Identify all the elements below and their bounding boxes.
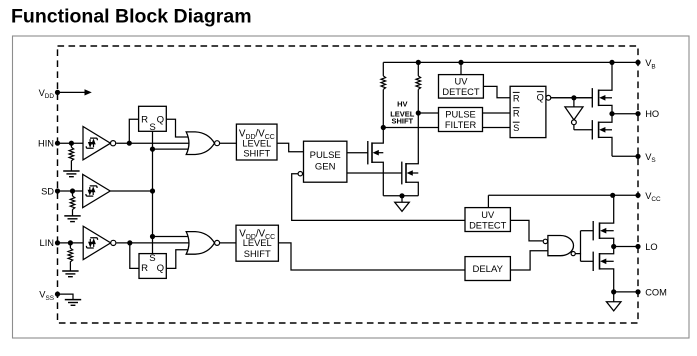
svg-text:S: S (149, 122, 155, 133)
svg-text:COM: COM (645, 287, 667, 297)
svg-text:SD: SD (41, 186, 54, 196)
svg-text:S: S (149, 253, 155, 264)
svg-text:Functional Block Diagram: Functional Block Diagram (11, 6, 252, 28)
svg-text:HIN: HIN (38, 139, 54, 149)
svg-text:GEN: GEN (315, 162, 336, 173)
svg-text:SHIFT: SHIFT (391, 117, 413, 126)
svg-text:HV: HV (397, 100, 407, 109)
svg-text:LO: LO (645, 242, 657, 252)
svg-text:SHIFT: SHIFT (243, 148, 270, 158)
svg-text:Q: Q (537, 93, 544, 103)
svg-text:PULSE: PULSE (445, 110, 476, 120)
svg-text:DETECT: DETECT (469, 220, 507, 230)
svg-text:R: R (513, 109, 520, 119)
svg-text:UV: UV (455, 77, 469, 87)
svg-text:DETECT: DETECT (442, 87, 480, 97)
svg-text:Q: Q (157, 114, 164, 125)
svg-text:UV: UV (481, 210, 495, 220)
svg-text:SHIFT: SHIFT (244, 249, 271, 259)
svg-text:R: R (141, 114, 148, 125)
svg-text:Q: Q (157, 263, 164, 274)
svg-text:DELAY: DELAY (472, 264, 503, 275)
svg-text:FILTER: FILTER (445, 120, 477, 130)
svg-text:R: R (513, 93, 520, 103)
svg-text:LIN: LIN (40, 238, 54, 248)
svg-text:PULSE: PULSE (310, 150, 341, 161)
svg-text:LEVEL: LEVEL (242, 138, 271, 148)
svg-text:S: S (513, 123, 519, 133)
svg-text:LEVEL: LEVEL (243, 238, 272, 248)
svg-text:R: R (141, 263, 148, 274)
svg-text:HO: HO (645, 109, 659, 119)
